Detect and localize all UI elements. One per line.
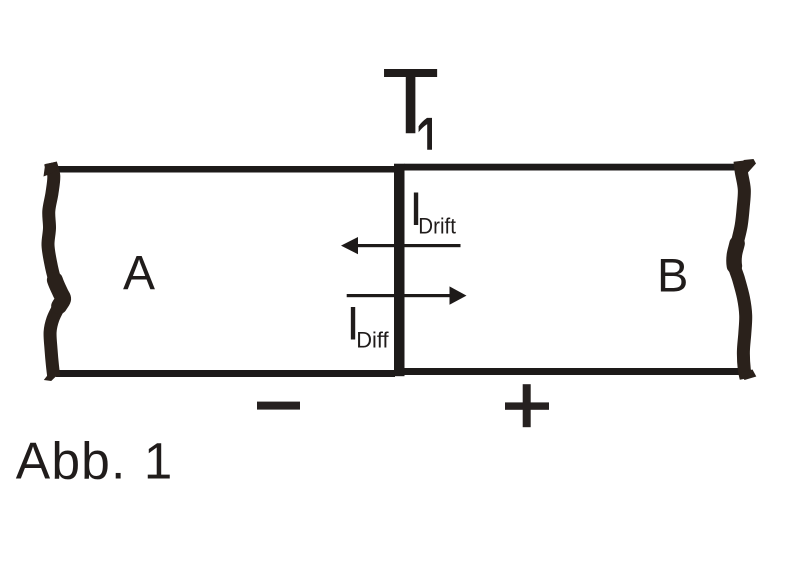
wire: bottom edge of conductor A xyxy=(56,370,395,377)
svg-text:Abb.: Abb. xyxy=(16,432,126,490)
wire: bottom edge of conductor B xyxy=(404,368,744,375)
label I_Diff (diffusion current) xyxy=(347,296,390,352)
wire: top edge of conductor A xyxy=(45,166,395,173)
broken end (wavy) of conductor A, left xyxy=(48,163,63,377)
svg-text:Diff: Diff xyxy=(356,327,389,352)
svg-text:1: 1 xyxy=(144,433,172,490)
junction bar T1 between A and B xyxy=(394,164,405,377)
label T1 (junction temperature) xyxy=(383,51,439,153)
left wave bulge thickening xyxy=(55,280,63,306)
svg-text:B: B xyxy=(657,249,688,302)
nib at bottom of left wavy end xyxy=(44,370,61,382)
nib at top of left wavy end xyxy=(44,162,58,177)
plus sign (positive pole under B) xyxy=(505,384,549,427)
nib at top of right wavy end xyxy=(741,159,756,173)
label I_Drift (drift current) xyxy=(410,182,457,239)
svg-text:A: A xyxy=(123,247,155,300)
wire: top edge of conductor B xyxy=(404,164,745,171)
nib at bottom of right wavy end xyxy=(740,370,756,381)
right wave bulge thickening xyxy=(734,244,737,267)
arrow: diffusion current, pointing right into B xyxy=(347,286,467,304)
broken end (wavy) of conductor B, right xyxy=(734,161,746,379)
svg-text:Drift: Drift xyxy=(418,214,456,239)
arrow: drift current, pointing left into A xyxy=(341,237,461,254)
minus sign (negative pole under A) xyxy=(257,402,300,410)
